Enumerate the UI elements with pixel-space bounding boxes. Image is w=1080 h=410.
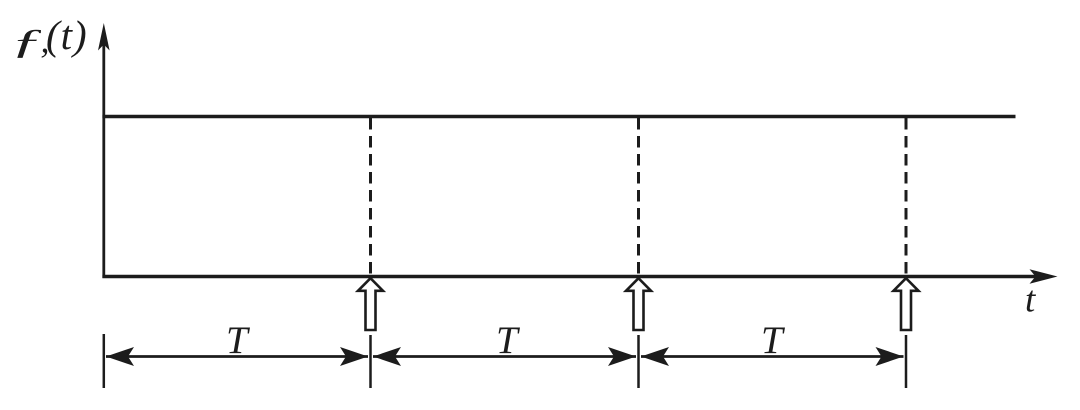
x-axis arrowhead <box>1030 269 1058 283</box>
extension tick 1 <box>369 335 372 388</box>
dimension line segment 3 <box>641 355 904 358</box>
dimension arrowhead 2 left <box>373 347 401 366</box>
svg-text:T: T <box>226 319 250 362</box>
dashed sample line 1 <box>369 118 372 276</box>
svg-text:(t): (t) <box>46 12 88 58</box>
svg-text:T: T <box>496 319 520 362</box>
svg-text:T: T <box>761 319 785 362</box>
dimension arrowhead 3 right <box>876 347 904 366</box>
svg-text:t: t <box>1025 280 1037 321</box>
dimension arrowhead 3 left <box>641 347 669 366</box>
dimension line segment 1 <box>106 355 368 358</box>
dimension arrowhead 2 right <box>608 347 636 366</box>
x-axis line <box>102 275 1036 278</box>
dimension arrowhead 1 left <box>106 347 134 366</box>
axis label f_s(t) <box>10 12 87 61</box>
dimension arrowhead 1 right <box>340 347 368 366</box>
y-axis arrowhead <box>98 23 110 51</box>
impulse arrow 3 (hollow) <box>894 278 919 330</box>
extension tick 2 <box>637 335 640 388</box>
signal top line <box>102 115 1015 118</box>
y-axis line <box>102 44 105 278</box>
impulse arrow 2 (hollow) <box>626 278 651 330</box>
dashed sample line 3 <box>905 118 908 276</box>
dimension line segment 2 <box>373 355 636 358</box>
svg-text:ƒ: ƒ <box>10 23 43 61</box>
extension tick 3 <box>905 335 908 388</box>
extension tick at origin <box>103 334 106 388</box>
impulse arrow 1 (hollow) <box>358 278 383 330</box>
dashed sample line 2 <box>637 118 640 276</box>
